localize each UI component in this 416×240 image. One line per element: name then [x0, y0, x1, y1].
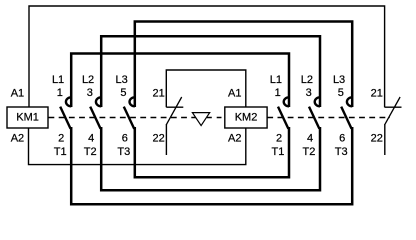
wire: bottom bridge KM1 T1 to KM2 T3: [71, 127, 352, 204]
wire: bottom bridge KM1 T2 to KM2 T2: [101, 127, 320, 190]
svg-text:T1: T1: [272, 146, 285, 158]
main contact KM2 pole 3-4: [309, 97, 320, 129]
svg-text:T3: T3: [335, 146, 348, 158]
svg-text:A2: A2: [11, 133, 24, 145]
svg-text:21: 21: [153, 88, 165, 100]
main contact KM2 pole 5-6: [341, 97, 352, 129]
svg-text:L3: L3: [116, 74, 128, 86]
svg-text:A1: A1: [11, 88, 24, 100]
svg-text:L2: L2: [301, 74, 313, 86]
svg-text:A2: A2: [228, 133, 241, 145]
svg-text:22: 22: [371, 133, 383, 145]
svg-text:T3: T3: [117, 146, 130, 158]
svg-text:2: 2: [58, 133, 64, 145]
svg-text:T1: T1: [54, 146, 67, 158]
wire: top bridge L3-L3 (KM1 pole 5 to KM2 pole 5): [135, 22, 352, 108]
main contact KM1 pole 5-6: [124, 97, 135, 129]
main contact KM1 pole 3-4: [90, 97, 101, 129]
svg-text:6: 6: [339, 133, 345, 145]
svg-text:L1: L1: [270, 74, 282, 86]
aux NC contact KM1 21-22: [166, 97, 183, 155]
svg-text:22: 22: [153, 133, 165, 145]
svg-text:4: 4: [307, 133, 313, 145]
svg-text:A1: A1: [228, 88, 241, 100]
wire: outer control loop from KM1 coil A1 to KM2 aux contact 21: [29, 6, 385, 108]
main contact KM1 pole 1-2: [60, 97, 71, 129]
svg-text:KM1: KM1: [16, 111, 39, 123]
svg-text:6: 6: [122, 133, 128, 145]
svg-text:T2: T2: [303, 146, 316, 158]
svg-text:2: 2: [276, 133, 282, 145]
svg-text:4: 4: [88, 133, 94, 145]
contactor KM1 coil box: [7, 107, 48, 128]
svg-text:L3: L3: [333, 74, 345, 86]
main contact KM2 pole 1-2: [278, 97, 289, 129]
svg-text:3: 3: [306, 87, 312, 99]
svg-text:21: 21: [371, 88, 383, 100]
svg-text:T2: T2: [84, 146, 97, 158]
wire: top bridge L1-L1 (KM1 pole 1 to KM2 pole 1): [71, 54, 289, 108]
mechanical linkage dashed line: [49, 117, 391, 119]
svg-text:5: 5: [338, 87, 344, 99]
wire: A2 rail from KM1 coil A2 to KM2 coil A2: [29, 128, 246, 165]
svg-text:1: 1: [275, 87, 281, 99]
aux NC contact KM2 21-22: [385, 97, 402, 155]
svg-text:3: 3: [87, 87, 93, 99]
svg-text:L2: L2: [82, 74, 94, 86]
svg-text:1: 1: [57, 87, 63, 99]
svg-text:5: 5: [120, 87, 126, 99]
wire: inner control loop from KM1 aux contact 21 to KM2 coil A1: [166, 70, 246, 107]
mechanical interlock triangle symbol: [192, 113, 209, 126]
wire: bottom bridge KM1 T3 to KM2 T1: [135, 127, 289, 177]
svg-text:KM2: KM2: [235, 111, 258, 123]
contactor KM2 coil box: [225, 107, 267, 128]
wire: top bridge L2-L2 (KM1 pole 3 to KM2 pole 3): [101, 36, 320, 107]
svg-text:L1: L1: [52, 74, 64, 86]
